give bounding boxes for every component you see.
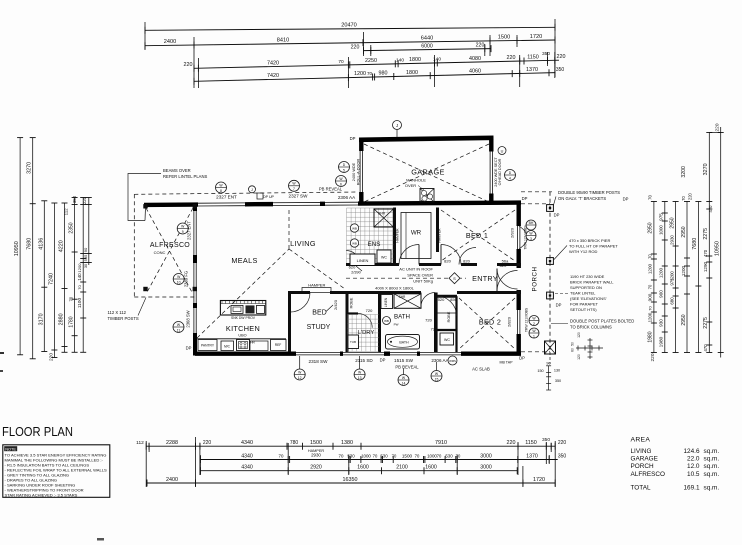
tag J garage bbox=[393, 121, 402, 138]
wall: garage right with o-head door opening bbox=[490, 138, 492, 205]
window label: left wall rotated labels bbox=[184, 221, 192, 328]
tag W/1 bbox=[529, 328, 539, 338]
room label: ENS bbox=[368, 241, 381, 248]
room label: ALFRESCO bbox=[150, 242, 190, 255]
dimension row: 7420/1200/70/980/1800/4060/1370/350 bbox=[194, 67, 564, 85]
porch downpipe/post boxes bbox=[545, 205, 556, 354]
wall: corridor bottom / bed2-bath-study top bbox=[288, 293, 521, 297]
wall: right exterior with windows and front door bbox=[517, 203, 520, 356]
wall: ens/wr/bed1 bottom (corridor top) bbox=[346, 263, 521, 266]
linen closet (hall) bbox=[350, 254, 375, 275]
tag W/10 bbox=[173, 274, 184, 285]
room label: BATH bbox=[394, 314, 410, 321]
door arc: bath bbox=[421, 293, 435, 307]
top dimension extension lines bbox=[145, 19, 555, 88]
annotation: ohead door (rotated) bbox=[494, 157, 502, 187]
tag W/6 bbox=[336, 176, 347, 187]
porch column vertical mini-dim bbox=[537, 361, 561, 390]
laundry floor tiles bbox=[348, 315, 380, 352]
tag W/13 bbox=[354, 356, 365, 380]
right dimension labels (rotated) bbox=[648, 123, 721, 361]
annotation: brick pier bbox=[554, 238, 618, 260]
room label: WR bbox=[411, 230, 422, 237]
eave dashed line above top wall bbox=[134, 192, 358, 194]
right dimension chain lines bbox=[651, 127, 724, 358]
notes box bbox=[3, 445, 110, 498]
wall: bath/bed2 divider bbox=[434, 293, 438, 353]
tag W/8 bbox=[216, 182, 227, 193]
kitchen island bench bbox=[220, 301, 265, 320]
alfresco dashed outline bbox=[134, 194, 196, 297]
room label: KITCHEN bbox=[226, 324, 260, 333]
wall: bed/study left bbox=[288, 293, 291, 353]
window label: bottom wall bbox=[309, 358, 514, 372]
area table bbox=[631, 437, 720, 492]
room label: BED 1 bbox=[466, 231, 488, 240]
bath tub bbox=[386, 335, 420, 350]
tag W/9 bbox=[177, 223, 188, 234]
bed1 roof cross dashed bbox=[441, 210, 515, 261]
annotation: 112x112 timber posts bbox=[108, 298, 147, 322]
tag W/12 bbox=[294, 356, 305, 380]
annotation: double post plates bbox=[551, 319, 634, 330]
meals/living roof dashed lines bbox=[197, 207, 345, 338]
porch column detail cross bbox=[571, 332, 604, 360]
robe label study bbox=[350, 297, 354, 308]
left dimension labels (rotated) bbox=[14, 162, 88, 361]
tag W/11 bbox=[173, 322, 184, 333]
wall: internal ens/wr divider bbox=[393, 208, 396, 264]
tag W/15 bbox=[431, 362, 442, 382]
window label: PB REVEAL 2306 AA top bbox=[319, 186, 356, 200]
wall: top exterior (living/meals + garage base) bbox=[144, 202, 521, 206]
dimension row: 2400 / 16350 / 1720 bbox=[147, 477, 555, 487]
bottom dimension extension lines bbox=[146, 437, 555, 487]
manhole label bbox=[405, 178, 426, 191]
bed2 roof cross dashed bbox=[459, 298, 515, 349]
wall: bed-study/robe divider bbox=[346, 293, 349, 353]
annotation: roll-a-door (rotated) bbox=[352, 159, 360, 186]
room label: ENTRY bbox=[472, 274, 498, 283]
window label: 2327 ENT top bbox=[216, 194, 237, 199]
dimension row: 2400 / 8410 / 6440 / 1500 / 1720 bbox=[145, 34, 555, 49]
wall: robe bottom / ldry top bbox=[346, 312, 358, 314]
alfresco roof cross dashed bbox=[146, 208, 193, 294]
garage roof cross dashed bbox=[364, 144, 489, 202]
room label: GARAGE bbox=[411, 168, 445, 177]
room label: MEALS bbox=[231, 256, 257, 265]
bed2 wc bbox=[440, 333, 454, 345]
dimension row: 4340/70/2930 hamper/70/530/1000/70/530/1500/70/1000/530/70/3000/1370/350 bbox=[200, 449, 566, 463]
tag D/4 bbox=[505, 170, 516, 181]
wall: garage left with roll-a-door opening bbox=[360, 139, 362, 206]
door arc: bed1 bbox=[441, 245, 461, 265]
wall: garage top bbox=[359, 138, 494, 140]
dimension row: overall width 20470 bbox=[145, 23, 555, 34]
door arc: front entry double bbox=[497, 269, 518, 292]
wall: bed2 robe/wc partition bbox=[437, 296, 457, 352]
window label: 2327 SW top bbox=[289, 193, 309, 198]
bath linen closet bbox=[381, 295, 393, 309]
smoke alarm diamond bbox=[449, 273, 460, 284]
bath shower bbox=[394, 294, 421, 309]
annotation: double 90x90 timber posts bbox=[554, 190, 621, 205]
tag U garage right bbox=[498, 147, 506, 155]
door arc: corridor to entry bbox=[459, 248, 476, 265]
dimension row: 220 / 6000 / 220 bbox=[351, 43, 491, 55]
tag W/7 bbox=[289, 180, 300, 191]
left dimension chain lines bbox=[17, 138, 92, 359]
ens wc bbox=[377, 250, 391, 263]
room label: BED STUDY bbox=[307, 305, 333, 331]
wr shelving bbox=[401, 213, 431, 259]
annotation: ac unit in roof bbox=[375, 267, 433, 291]
rotated door labels bbox=[333, 225, 529, 332]
door arc: bed1 porch window bbox=[519, 226, 528, 249]
porch dashed outline bbox=[521, 192, 552, 352]
dimension row: 112/2288/220/4340/780/1500/1380/7910/220/1150/350/220 bbox=[136, 437, 566, 450]
annotation: beams over bbox=[128, 168, 207, 221]
corridor ceiling dashed bbox=[346, 277, 466, 279]
bed2 robe bbox=[437, 311, 457, 322]
ens shower bbox=[374, 209, 394, 227]
tag W/14 bbox=[398, 368, 409, 386]
door arc: ens bbox=[346, 251, 360, 265]
porch dashed leader down bbox=[549, 352, 551, 364]
tag WMS bbox=[448, 356, 457, 365]
dimension row: 4340/2920/1600/2100/1600/3000 bbox=[200, 465, 517, 475]
door arc: laundry bbox=[358, 314, 372, 328]
door size labels bbox=[349, 258, 509, 331]
room label: LDRY bbox=[358, 330, 375, 336]
wall: bottom exterior with windows bbox=[195, 352, 521, 355]
ens basins bbox=[350, 224, 358, 247]
hamper labels wr bbox=[396, 228, 442, 243]
manhole symbol bbox=[420, 189, 434, 203]
DP labels bbox=[186, 136, 629, 363]
title: FLOOR PLAN bbox=[2, 424, 73, 439]
tag W/2 bbox=[529, 316, 539, 326]
door arc: wr bbox=[399, 245, 419, 265]
alfresco timber posts bbox=[143, 204, 197, 291]
tag BH bed1 bbox=[526, 220, 536, 230]
annotation: parapet wall bbox=[554, 274, 614, 312]
scan speck marks bbox=[0, 352, 104, 541]
room label: LIVING bbox=[290, 239, 316, 248]
room label: BED 2 bbox=[479, 318, 501, 327]
door arc: bed2 bbox=[437, 296, 457, 316]
room label: PORCH (rotated) bbox=[532, 267, 539, 292]
tag D/5 bbox=[339, 162, 350, 173]
wall: left exterior (meals/kitchen west) with glazing bbox=[194, 204, 196, 356]
annotation: hamper top bbox=[302, 282, 331, 292]
tag W/3 bbox=[526, 231, 536, 241]
ens floor tiles bbox=[347, 208, 394, 263]
wall: internal wr/bed1 divider bbox=[436, 208, 439, 253]
dp up tag bbox=[257, 193, 275, 199]
kitchen bottom bench bbox=[197, 334, 286, 351]
dimension row: 220/7420/70/2250/140/1800/140/4080/220/1150/350/220 bbox=[184, 51, 566, 72]
laundry tub bbox=[348, 335, 359, 349]
door arc: bed/study bbox=[291, 293, 311, 313]
wall: ldry/bath divider bbox=[378, 293, 381, 353]
tag J small bbox=[249, 186, 256, 193]
bath basin bbox=[383, 317, 399, 327]
